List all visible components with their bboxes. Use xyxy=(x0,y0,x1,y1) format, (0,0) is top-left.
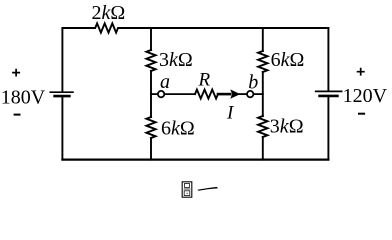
svg-text:3kΩ: 3kΩ xyxy=(159,49,193,71)
wire branch-a upper xyxy=(150,28,152,50)
resistor 6kΩ (branch b, top) xyxy=(258,51,267,72)
resistor 3kΩ (branch a, top) xyxy=(147,50,156,71)
wire branch-b middle xyxy=(262,72,264,116)
svg-text:I: I xyxy=(226,103,235,124)
caption 圖 (figure) xyxy=(182,182,192,197)
resistor 6kΩ (branch a, bottom) xyxy=(147,117,156,138)
wire branch-b upper xyxy=(262,28,264,51)
node b terminal circle xyxy=(247,91,253,97)
wire left upper xyxy=(61,28,63,91)
battery V2 120V short plate xyxy=(320,95,338,98)
svg-text:3kΩ: 3kΩ xyxy=(270,116,304,138)
wire branch-a lower xyxy=(150,138,152,160)
svg-text:2kΩ: 2kΩ xyxy=(92,2,126,24)
polarity + (left source) xyxy=(12,69,20,77)
svg-text:R: R xyxy=(198,70,211,91)
polarity − (left source) xyxy=(14,114,21,116)
wire branch-a middle xyxy=(150,71,152,117)
polarity − (right source) xyxy=(358,113,365,115)
battery V1 180V long plate xyxy=(50,91,73,93)
node a terminal circle xyxy=(158,91,164,97)
wire left lower xyxy=(61,97,63,159)
wire right lower xyxy=(327,97,329,159)
svg-text:180V: 180V xyxy=(1,87,46,109)
battery V1 180V short plate xyxy=(55,95,70,98)
wire arrow to node b xyxy=(240,93,248,95)
svg-text:6kΩ: 6kΩ xyxy=(271,49,305,71)
wire a to R xyxy=(164,93,195,95)
wire bottom xyxy=(62,159,328,161)
wire top with resistor 2kΩ xyxy=(62,23,328,32)
svg-text:b: b xyxy=(248,71,258,93)
wire node-b stub xyxy=(253,93,262,95)
battery V2 120V long plate xyxy=(316,90,342,92)
resistor 3kΩ (branch b, bottom) xyxy=(258,116,267,137)
svg-text:6kΩ: 6kΩ xyxy=(161,117,195,139)
wire branch-b lower xyxy=(262,137,264,160)
wire node-a stub xyxy=(151,93,158,95)
wire right upper xyxy=(327,28,329,91)
svg-text:120V: 120V xyxy=(343,85,388,107)
svg-text:a: a xyxy=(160,71,170,93)
polarity + (right source) xyxy=(357,68,365,76)
current I arrow shaft xyxy=(218,93,230,96)
caption 一 (one) xyxy=(197,187,218,191)
current I arrowhead xyxy=(230,89,240,98)
resistor R (horizontal) xyxy=(195,90,218,99)
